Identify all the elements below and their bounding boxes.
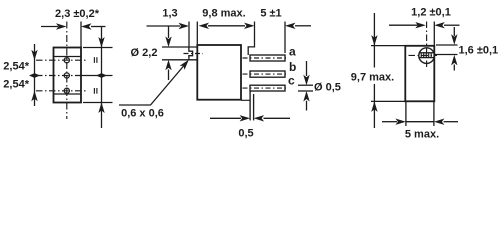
svg-text:2,3 ±0,2*: 2,3 ±0,2*: [55, 8, 100, 20]
pin c: [250, 85, 285, 91]
dim 1,2 right arrow: [434, 22, 445, 28]
dim 5max line between: [406, 121, 434, 123]
dim 1,2 right extension line: [433, 22, 435, 46]
boss bottom extension line: [162, 59, 189, 61]
dim 2,3 right extension line: [80, 22, 82, 48]
dim 5max right arrow: [434, 119, 445, 125]
dim 1,3 dimension line: [147, 25, 181, 27]
svg-text:1,6 ±0,1: 1,6 ±0,1: [459, 45, 499, 57]
dim 1,6 bottom arrow shaft: [453, 65, 455, 71]
svg-text:Ø 2,2: Ø 2,2: [131, 47, 158, 59]
dim dia 0,5 bottom arrow: [303, 91, 309, 102]
screw slot hatches: [421, 53, 431, 57]
dim 5max right shaft: [444, 121, 458, 123]
dim 1,6 top arrow: [451, 34, 457, 45]
dim 5max right extension line: [433, 101, 435, 126]
dim 9,8 right extension line with jog: [248, 22, 254, 56]
dim 2,3 right arrow: [81, 23, 92, 29]
dim 9,8 left arrow: [199, 23, 210, 29]
pin 2 row extension line right: [81, 75, 113, 77]
boss top extension line: [162, 46, 189, 48]
adjustment boss with slot notch: [189, 47, 197, 60]
svg-text:1,2 ±0,1: 1,2 ±0,1: [411, 7, 451, 19]
dim 5+-1 shaft: [295, 25, 311, 27]
dim 1,6 top extension line: [436, 44, 458, 46]
svg-text:Ø 0,5: Ø 0,5: [314, 82, 341, 94]
screw slot top line: [419, 52, 434, 54]
left view top seam line: [54, 56, 82, 58]
dim 1,6 bottom arrow: [451, 55, 457, 66]
bent pin right edge: [253, 94, 255, 120]
dim 5max left arrow: [395, 119, 406, 125]
dim 9,7 bottom arrow: [371, 101, 377, 112]
pin 3 row centerline: [36, 90, 88, 92]
dim 2,54 upper arrow: [31, 50, 37, 61]
dim 0,5 left shaft: [210, 117, 241, 119]
pin 2 circle: [64, 73, 69, 78]
dim 9,7 dimension line upper: [373, 13, 375, 68]
svg-text:2,54*: 2,54*: [3, 60, 29, 72]
dim 2,54 left dimension line: [34, 44, 36, 106]
svg-text:5 max.: 5 max.: [405, 129, 439, 141]
pin b centerline: [243, 73, 288, 75]
dim 2,54 lower arrow: [31, 91, 37, 102]
dim 1,2 left arrow: [415, 22, 426, 28]
svg-text:0,6 x 0,6: 0,6 x 0,6: [121, 108, 164, 120]
left view right dim top arrow: [98, 37, 104, 48]
left view right dim bottom arrow: [98, 103, 104, 114]
pin 1 circle: [64, 58, 69, 63]
dim 0,5 right arrow: [254, 115, 265, 121]
svg-text:0,5: 0,5: [238, 128, 253, 140]
dim dia 2,2 bottom arrow shaft: [168, 70, 170, 81]
bent pin left edge: [249, 91, 251, 120]
right view bottom edge extension left: [371, 100, 405, 102]
left view vertical centerline: [66, 22, 68, 120]
svg-text:c: c: [288, 74, 295, 88]
dim 5max left shaft: [382, 121, 397, 123]
svg-text:9,7 max.: 9,7 max.: [351, 72, 394, 84]
dim dia 0,5 top arrow: [303, 75, 309, 86]
screw axis centerline: [184, 53, 204, 55]
dim 1,6 bottom extension line: [434, 54, 457, 56]
dim 1,3 boss face extension line: [188, 22, 190, 48]
dim 1,6 top arrow shaft: [453, 27, 455, 36]
left view bottom seam line: [54, 93, 82, 95]
dim 9,8 right arrow: [244, 23, 255, 29]
pin a centerline: [243, 57, 288, 59]
leader arrowhead: [180, 60, 189, 70]
dim 2,54 middle diamond: [29, 73, 40, 78]
left view right side dimension line: [101, 27, 103, 129]
parallel mark row1: [94, 57, 97, 63]
screw vertical centerline: [426, 22, 428, 69]
dim dia 0,5 bottom arrow shaft: [306, 101, 308, 111]
dim dia 2,2 top arrow shaft: [168, 27, 170, 39]
body bottom edge extension to bend: [241, 99, 250, 101]
screw horizontal centerline: [409, 54, 438, 56]
screw circle: [419, 48, 435, 64]
dim 5+-1 right extension line: [284, 22, 286, 54]
left view bottom edge extension right: [83, 102, 113, 104]
pin 2 row centerline: [36, 75, 81, 77]
dim 1,3 body edge extension line: [196, 22, 198, 46]
pin c top extension line: [298, 84, 313, 86]
svg-text:9,8 max.: 9,8 max.: [202, 8, 245, 20]
pin 3 circle: [64, 88, 69, 93]
dim 1,3 left arrow: [179, 23, 190, 29]
dim 0,5 right shaft: [264, 117, 291, 119]
dim 9,7 top arrow: [371, 35, 377, 46]
dim 2,3 dimension line left part: [41, 26, 58, 28]
left view body outline: [54, 48, 82, 103]
dim 2,3 left arrow: [56, 23, 67, 29]
label 9,7 max. with background: [348, 68, 396, 84]
pin c centerline: [243, 87, 288, 89]
dim 0,5 left arrow: [240, 115, 251, 121]
left view right dim diamond: [96, 73, 107, 78]
svg-text:2,54*: 2,54*: [3, 78, 29, 90]
leader line 0,6x0,6: [119, 66, 184, 106]
parallel mark row3: [94, 88, 97, 94]
middle view body outline: [197, 45, 241, 100]
pin c bottom extension line: [298, 90, 313, 92]
dim 2,3 dimension line right part: [91, 26, 106, 28]
dim 5+-1 right arrow: [285, 23, 296, 29]
dim 1,2 right shaft: [444, 24, 460, 26]
left view top edge extension right: [83, 47, 113, 49]
svg-text:b: b: [289, 60, 296, 74]
dim 5max left extension line: [405, 101, 407, 126]
dim dia 2,2 top arrow: [165, 37, 171, 48]
svg-text:1,3: 1,3: [162, 8, 177, 20]
pin 1 row centerline: [36, 59, 88, 61]
right view top edge extension left: [371, 45, 405, 47]
dim dia 0,5 top arrow shaft: [306, 61, 308, 76]
svg-text:a: a: [289, 45, 296, 59]
dim 9,8 dimension line: [208, 25, 245, 27]
svg-text:5 ±1: 5 ±1: [260, 8, 281, 20]
dim dia 2,2 bottom arrow: [165, 60, 171, 71]
pin a: [250, 55, 285, 61]
pin b: [250, 71, 285, 77]
dim 1,2 dimension line left: [389, 24, 418, 26]
screw slot bottom line: [419, 57, 434, 59]
dim 9,7 dimension line lower: [373, 84, 375, 128]
right view body outline: [405, 46, 434, 102]
